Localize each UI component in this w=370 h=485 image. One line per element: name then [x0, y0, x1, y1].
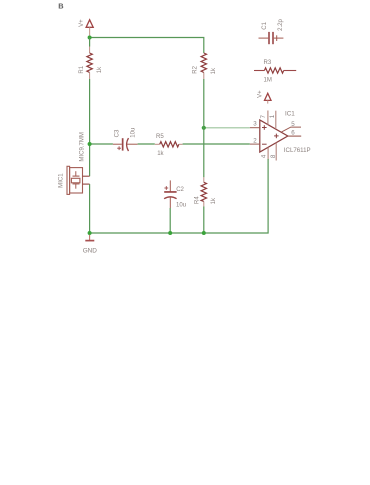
svg-text:IC1: IC1: [285, 111, 295, 118]
wire R5 to pin 2: [183, 143, 250, 145]
junction bias node: [202, 126, 206, 130]
svg-text:R4: R4: [195, 196, 201, 204]
junction R4-ground: [202, 231, 206, 235]
svg-text:R1: R1: [79, 65, 85, 73]
svg-text:1k: 1k: [211, 197, 217, 204]
wire top rail: [90, 38, 204, 54]
resistor R1: [87, 47, 92, 80]
IC1 pin 1: [275, 111, 277, 129]
svg-text:7: 7: [260, 115, 267, 119]
IC1 pin 6 (output): [288, 135, 301, 137]
svg-text:1k: 1k: [157, 151, 164, 157]
svg-text:C2: C2: [176, 187, 184, 193]
svg-text:1: 1: [269, 114, 276, 118]
svg-text:C3: C3: [115, 129, 121, 137]
svg-text:1M: 1M: [264, 78, 272, 84]
op-amp IC1 ICL7611P: [260, 120, 288, 152]
resistor R2: [201, 53, 206, 79]
svg-text:8: 8: [270, 154, 277, 158]
supply symbol V+ (top left): [86, 20, 93, 36]
IC1 pin 2 stub: [250, 143, 259, 145]
svg-text:ICL7611P: ICL7611P: [284, 147, 311, 154]
wire from bias node to pin 3: [204, 127, 250, 129]
wire left column R1 to mic: [89, 79, 91, 176]
svg-text:10u: 10u: [176, 202, 186, 208]
svg-text:2: 2: [253, 138, 257, 145]
svg-text:B: B: [58, 1, 63, 10]
svg-text:5: 5: [291, 121, 295, 128]
svg-text:1k: 1k: [97, 66, 103, 73]
svg-text:10u: 10u: [131, 128, 137, 138]
svg-text:1k: 1k: [211, 67, 217, 74]
svg-text:4: 4: [260, 154, 267, 158]
svg-text:6: 6: [291, 129, 295, 136]
svg-text:MIC1: MIC1: [59, 173, 65, 188]
wire right column R2 to R4: [203, 79, 205, 177]
svg-text:C1: C1: [262, 21, 268, 29]
supply symbol V+ (at IC1 pin 7): [265, 93, 272, 103]
capacitor C3: [113, 138, 138, 151]
svg-text:V+: V+: [79, 19, 85, 27]
microphone MIC1: [67, 166, 90, 194]
wire ground rail: [90, 159, 269, 233]
svg-text:V+: V+: [258, 90, 264, 98]
svg-text:R5: R5: [156, 134, 164, 140]
resistor R3: [254, 68, 296, 73]
wire mic node to C3: [90, 143, 113, 145]
IC1 pin 8: [275, 143, 277, 161]
wire C3 to R5: [138, 143, 155, 145]
junction top-left node: [88, 36, 92, 40]
resistor R4: [201, 177, 206, 206]
IC1 pin 4 stub: [267, 148, 269, 160]
resistor R5: [155, 142, 183, 147]
junction mic node: [88, 142, 92, 146]
ground symbol GND: [85, 235, 94, 241]
svg-text:R3: R3: [264, 60, 272, 66]
svg-text:3: 3: [253, 121, 257, 128]
IC1 pin 3 stub: [250, 127, 259, 129]
junction ground-left: [88, 231, 92, 235]
svg-text:GND: GND: [83, 247, 98, 254]
junction C2-ground: [168, 231, 172, 235]
IC1 pin 5: [282, 127, 301, 132]
svg-text:R2: R2: [193, 65, 199, 73]
wire mic to ground rail: [89, 184, 91, 233]
wire R4 to ground rail: [203, 206, 205, 233]
capacitor C2: [164, 180, 177, 208]
wire left column above R1: [89, 38, 91, 47]
capacitor C1: [259, 32, 284, 44]
IC1 pin 7 (V+): [267, 111, 269, 125]
wire C2 to ground rail: [169, 208, 171, 233]
svg-text:2.2p: 2.2p: [278, 18, 284, 30]
svg-text:MIC9.7MM: MIC9.7MM: [79, 132, 85, 162]
